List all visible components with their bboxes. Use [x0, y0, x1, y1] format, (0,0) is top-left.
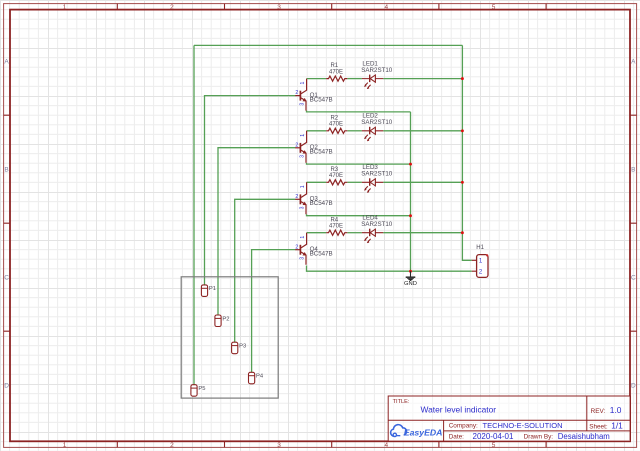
- svg-text:1: 1: [63, 4, 67, 11]
- svg-text:3: 3: [277, 442, 281, 449]
- svg-text:2: 2: [295, 244, 298, 250]
- svg-text:TITLE:: TITLE:: [393, 399, 410, 405]
- svg-text:SAR2ST10: SAR2ST10: [361, 67, 393, 74]
- svg-text:P2: P2: [222, 316, 229, 322]
- LED3 SAR2ST10: [362, 178, 383, 192]
- LED4 SAR2ST10: [362, 229, 383, 243]
- ground GND symbol: [406, 271, 416, 281]
- svg-text:2: 2: [295, 142, 298, 148]
- wire: Q4 base to probe P4: [252, 250, 296, 373]
- svg-text:SAR2ST10: SAR2ST10: [361, 221, 393, 228]
- svg-text:GND: GND: [404, 281, 417, 287]
- wire: Q3 collector to R3: [307, 181, 327, 183]
- wire: probe P5 vertical: [193, 45, 195, 385]
- svg-text:Desaishubham: Desaishubham: [558, 432, 610, 441]
- svg-text:R2: R2: [330, 115, 338, 121]
- svg-text:C: C: [631, 274, 636, 281]
- transistor Q1 BC547B: [295, 79, 306, 111]
- resistor R4 470E: [326, 230, 347, 235]
- EasyEDA logo: [391, 425, 443, 438]
- svg-text:BC547B: BC547B: [310, 96, 333, 103]
- svg-text:TECHNO-E-SOLUTION: TECHNO-E-SOLUTION: [483, 421, 563, 430]
- svg-text:A: A: [4, 58, 9, 65]
- svg-text:P3: P3: [239, 344, 246, 350]
- border column numbers 1-5 (top): [63, 4, 496, 11]
- svg-text:2020-04-01: 2020-04-01: [473, 432, 514, 441]
- border row letters A-D (left): [4, 58, 9, 389]
- probe connector P2: [215, 315, 221, 327]
- svg-text:D: D: [4, 382, 9, 389]
- svg-text:1.0: 1.0: [610, 405, 622, 415]
- svg-text:EasyEDA: EasyEDA: [404, 428, 443, 438]
- title block labels: [393, 399, 410, 405]
- svg-text:1/1: 1/1: [611, 421, 623, 431]
- svg-text:1: 1: [300, 236, 306, 239]
- border row letters A-D (right): [631, 58, 636, 389]
- probe connector P1: [201, 285, 207, 297]
- svg-text:470E: 470E: [329, 173, 343, 179]
- svg-text:C: C: [4, 274, 9, 281]
- svg-text:BC547B: BC547B: [310, 200, 333, 207]
- junction dots on right rail: [461, 77, 464, 234]
- probe connector P4: [249, 372, 255, 384]
- resistor R3 470E: [326, 180, 347, 185]
- svg-text:R3: R3: [330, 167, 338, 173]
- wire: R4 to LED4: [347, 232, 362, 234]
- svg-text:1: 1: [300, 134, 306, 137]
- svg-text:Sheet:: Sheet:: [589, 423, 608, 430]
- svg-text:Date:: Date:: [449, 433, 464, 440]
- svg-text:SAR2ST10: SAR2ST10: [361, 119, 393, 126]
- wire: Q1 base to probe P1: [205, 96, 296, 285]
- svg-text:SAR2ST10: SAR2ST10: [361, 171, 393, 178]
- resistor R2 470E: [326, 128, 347, 133]
- wire: right supply rail down to H1 pin 1: [462, 45, 471, 260]
- svg-text:Drawn By:: Drawn By:: [524, 434, 554, 441]
- wire: LED4 to right rail: [383, 232, 462, 234]
- border column numbers 1-5 (bottom): [63, 442, 496, 449]
- svg-text:3: 3: [300, 257, 306, 260]
- wire: LED1 to right rail: [383, 78, 462, 80]
- svg-text:P1: P1: [209, 286, 216, 292]
- svg-text:4: 4: [384, 4, 388, 11]
- transistor Q3 BC547B: [295, 182, 306, 214]
- probe connector P3: [232, 342, 238, 354]
- wire: R2 to LED2: [347, 130, 362, 132]
- svg-text:3: 3: [300, 103, 306, 106]
- title block values: [421, 405, 624, 441]
- wire: ground rail vertical: [410, 112, 412, 271]
- LED1 SAR2ST10: [362, 75, 383, 89]
- svg-text:3: 3: [300, 155, 306, 158]
- title block frame: [388, 396, 630, 441]
- svg-text:1: 1: [300, 82, 306, 85]
- wire: Q2 collector to R2: [307, 130, 327, 132]
- svg-text:P5: P5: [198, 386, 205, 392]
- svg-text:BC547B: BC547B: [310, 251, 333, 258]
- svg-text:470E: 470E: [329, 223, 343, 229]
- svg-text:470E: 470E: [329, 69, 343, 75]
- svg-text:BC547B: BC547B: [310, 149, 333, 156]
- LED2 SAR2ST10: [362, 127, 383, 141]
- svg-text:5: 5: [492, 4, 496, 11]
- wire: LED3 to right rail: [383, 181, 462, 183]
- wire: R1 to LED1: [347, 78, 362, 80]
- svg-text:5: 5: [492, 442, 496, 449]
- svg-text:REV:: REV:: [591, 408, 606, 415]
- probe connector P5: [191, 385, 197, 397]
- svg-text:2: 2: [295, 194, 298, 200]
- svg-text:3: 3: [277, 4, 281, 11]
- junction dots on ground rail: [409, 163, 412, 273]
- wire: Q3 emitter to ground rail: [307, 214, 411, 215]
- svg-text:P4: P4: [256, 374, 264, 380]
- svg-text:4: 4: [384, 442, 388, 449]
- svg-text:1: 1: [300, 185, 306, 188]
- svg-text:2: 2: [170, 442, 174, 449]
- wire: Q1 collector to R1: [307, 78, 327, 80]
- water tank box around probes: [181, 277, 278, 398]
- wire: LED2 to right rail: [383, 130, 462, 132]
- svg-text:R1: R1: [330, 63, 338, 69]
- svg-text:B: B: [4, 166, 8, 173]
- resistor R1 470E: [326, 76, 347, 81]
- svg-text:470E: 470E: [329, 122, 343, 128]
- svg-text:H1: H1: [476, 245, 484, 251]
- wire: Q4 collector to R4: [307, 232, 327, 234]
- svg-text:B: B: [631, 166, 635, 173]
- transistor Q2 BC547B: [295, 131, 306, 163]
- wire: Q2 emitter to ground rail: [307, 163, 411, 164]
- svg-text:R4: R4: [330, 217, 338, 223]
- wire: R3 to LED3: [347, 181, 362, 183]
- transistor Q4 BC547B: [295, 233, 306, 265]
- wire: top supply from P5 column to right rail: [194, 44, 462, 46]
- svg-text:2: 2: [295, 90, 298, 96]
- wire: Q4 emitter / GND row to H1 pin 2: [307, 266, 472, 272]
- svg-text:3: 3: [300, 206, 306, 209]
- svg-text:Water level indicator: Water level indicator: [421, 405, 497, 415]
- wire: Q2 base to probe P2: [218, 148, 295, 315]
- wire: Q1 emitter to ground rail: [307, 111, 411, 112]
- svg-text:Company:: Company:: [449, 423, 478, 430]
- svg-text:D: D: [631, 382, 636, 389]
- svg-text:1: 1: [63, 442, 67, 449]
- svg-text:2: 2: [170, 4, 174, 11]
- wire: Q3 base to probe P3: [235, 199, 296, 342]
- svg-text:A: A: [631, 58, 636, 65]
